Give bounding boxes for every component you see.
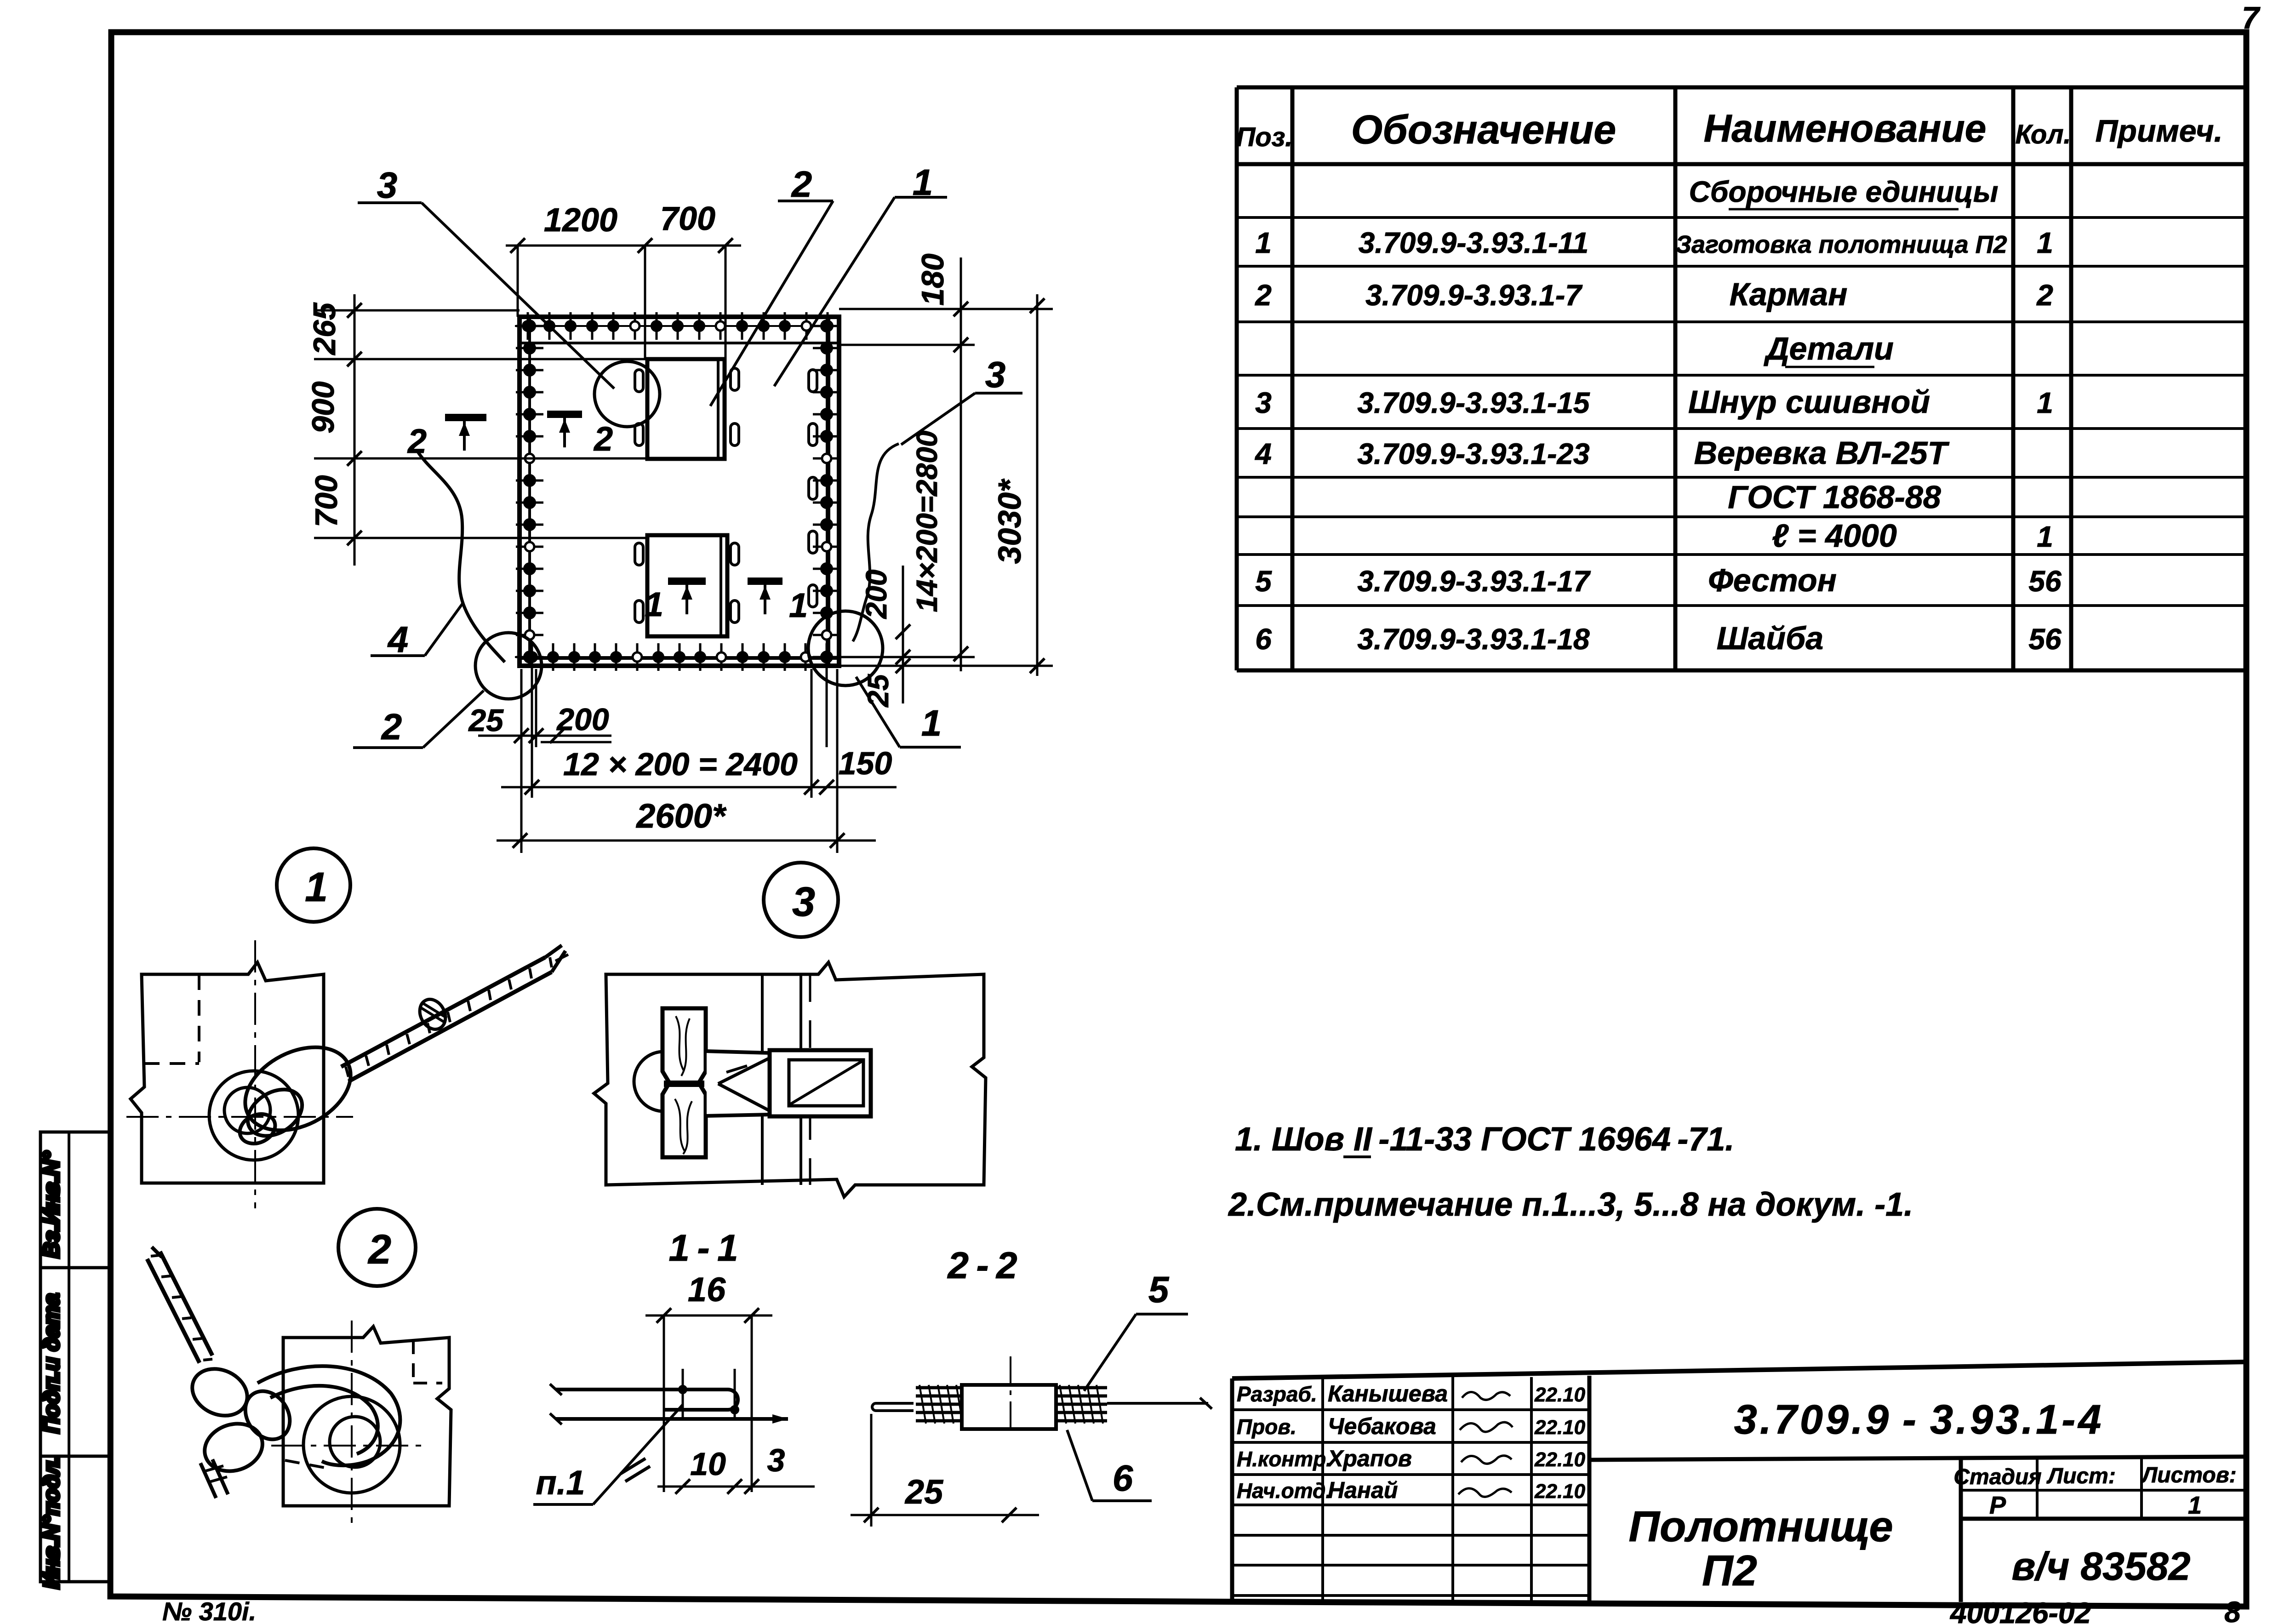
svg-text:2: 2 (1255, 279, 1272, 312)
svg-text:Шнур сшивной: Шнур сшивной (1688, 384, 1930, 420)
svg-text:14×200=2800: 14×200=2800 (910, 430, 943, 612)
detail 3 panel (594, 962, 986, 1197)
svg-text:Канышева: Канышева (1328, 1381, 1448, 1407)
svg-text:3030*: 3030* (992, 479, 1028, 564)
svg-text:1: 1 (921, 703, 942, 743)
detail 2 washer (303, 1396, 400, 1493)
svg-text:ГОСТ 1868-88: ГОСТ 1868-88 (1728, 479, 1941, 515)
svg-text:6: 6 (1113, 1458, 1133, 1498)
svg-text:16: 16 (688, 1270, 726, 1309)
svg-text:22.10: 22.10 (1534, 1416, 1586, 1439)
notes text (1228, 1121, 1913, 1223)
svg-text:22.10: 22.10 (1534, 1384, 1586, 1406)
dim 2600* (497, 797, 876, 848)
section 2-2 washer stack (872, 1356, 1212, 1435)
left stamp block (40, 1132, 110, 1589)
svg-text:Нанай: Нанай (1328, 1477, 1398, 1503)
svg-text:3.709.9-3.93.1-11: 3.709.9-3.93.1-11 (1359, 226, 1589, 259)
title block grid (1232, 1362, 2246, 1602)
label 1 top with leader (774, 162, 947, 386)
detail 1 panel (126, 940, 353, 1208)
svg-text:25: 25 (904, 1473, 944, 1511)
svg-text:Шайба: Шайба (1717, 620, 1824, 656)
svg-text:1: 1 (789, 586, 808, 624)
title block name (1628, 1502, 1893, 1595)
grommet column left (516, 317, 543, 666)
grommet row top (515, 312, 834, 340)
svg-text:Полотнище: Полотнище (1628, 1502, 1893, 1550)
svg-text:1: 1 (305, 864, 328, 910)
svg-text:Примеч.: Примеч. (2096, 114, 2223, 149)
svg-text:4: 4 (387, 619, 409, 660)
label 2 top with leader (710, 164, 833, 406)
svg-text:2: 2 (367, 1227, 391, 1273)
svg-text:1: 1 (1255, 226, 1272, 259)
detail 3 strap with buckle (704, 1050, 871, 1116)
svg-text:№ 310i.: № 310i. (162, 1597, 256, 1624)
svg-text:ℓ = 4000: ℓ = 4000 (1772, 518, 1897, 554)
svg-text:Н.контр.: Н.контр. (1237, 1447, 1332, 1471)
svg-text:5: 5 (1255, 565, 1272, 598)
svg-text:Заготовка полотнища П2: Заготовка полотнища П2 (1675, 231, 2007, 258)
svg-text:Стадия: Стадия (1953, 1465, 2041, 1489)
svg-text:3: 3 (767, 1442, 785, 1478)
svg-text:3.709.9-3.93.1-7: 3.709.9-3.93.1-7 (1365, 279, 1583, 312)
svg-text:3.709.9 - 3.93.1-4: 3.709.9 - 3.93.1-4 (1734, 1397, 2104, 1443)
section 1-1 dim 16 (645, 1270, 772, 1492)
detail 1 rope with knot (231, 945, 568, 1149)
svg-text:3.709.9-3.93.1-18: 3.709.9-3.93.1-18 (1357, 623, 1590, 656)
detail 1 washer (209, 1071, 298, 1160)
svg-text:Разраб.: Разраб. (1237, 1382, 1317, 1406)
grommet row bottom (515, 643, 834, 671)
label 1 bottom-right with leader (856, 677, 961, 747)
svg-text:Поз.: Поз. (1236, 122, 1293, 152)
parts table rows text (1254, 175, 2062, 656)
parts table grid (1237, 87, 2246, 670)
flag mark 1 (right) (748, 581, 808, 624)
dim 12x200=2400 and 150 (501, 745, 897, 795)
detail 3 callout (764, 863, 838, 937)
detail 2 callout (338, 1209, 416, 1286)
svg-text:3: 3 (377, 165, 398, 206)
detail 3 grommet (634, 1052, 694, 1111)
pocket lower (karman) (647, 535, 727, 636)
detail 1 callout (277, 848, 350, 922)
svg-text:Нач.отд.: Нач.отд. (1237, 1479, 1331, 1503)
extension lines below panel (521, 669, 837, 853)
svg-text:5: 5 (1148, 1269, 1170, 1310)
svg-text:1 - 1: 1 - 1 (668, 1227, 738, 1269)
svg-text:Веревка ВЛ-25Т: Веревка ВЛ-25Т (1694, 435, 1950, 471)
svg-text:1. Шов II -11-33 ГОСТ 16964: 1. Шов II -11-33 ГОСТ 16964 -71. (1235, 1121, 1734, 1158)
svg-text:56: 56 (2028, 623, 2062, 656)
svg-text:Сборочные единицы: Сборочные единицы (1689, 175, 1999, 208)
svg-text:2 - 2: 2 - 2 (947, 1245, 1017, 1287)
svg-text:Листов:: Листов: (2141, 1463, 2236, 1487)
dim 200 / 25 right near corner (860, 566, 910, 708)
leader circle bottom-left corner (475, 633, 542, 699)
svg-text:2: 2 (791, 164, 812, 205)
svg-text:1200: 1200 (544, 202, 617, 239)
section 1-1 label p.1 (533, 1405, 683, 1504)
grommet column right (813, 317, 840, 666)
svg-text:400126-02: 400126-02 (1949, 1596, 2091, 1624)
title block signature rows (1237, 1381, 1586, 1503)
svg-text:Пров.: Пров. (1237, 1415, 1296, 1439)
dim 1200 / 700 top (506, 200, 741, 359)
leader circle at upper pocket (594, 361, 660, 427)
flag mark 1 (left) (645, 581, 706, 623)
svg-text:1: 1 (2037, 386, 2053, 419)
dim chain right (180 / 14x200=2800 / 3030*) (839, 253, 1053, 676)
svg-text:3.709.9-3.93.1-17: 3.709.9-3.93.1-17 (1357, 565, 1591, 598)
svg-text:2600*: 2600* (635, 797, 727, 835)
svg-text:12 × 200 = 2400: 12 × 200 = 2400 (563, 746, 798, 782)
svg-text:Обозначение: Обозначение (1351, 107, 1616, 152)
detail 2 panel (271, 1321, 451, 1530)
svg-text:Подп.и дата: Подп.и дата (40, 1293, 64, 1434)
svg-text:700: 700 (309, 475, 344, 527)
panel outline (canvas sheet) (520, 317, 839, 666)
svg-text:265: 265 (307, 302, 342, 356)
svg-text:Детали: Детали (1764, 331, 1894, 366)
svg-text:Инв.N°подл.: Инв.N°подл. (40, 1455, 64, 1589)
svg-text:8: 8 (2224, 1595, 2241, 1624)
parts table header text (1236, 107, 2223, 152)
dim 25 / 200 bottom-left (468, 702, 611, 743)
dim chain left (265/900/700) (306, 294, 362, 566)
svg-text:Лист:: Лист: (2046, 1464, 2116, 1488)
section 2-2 dim 25 (851, 1414, 1039, 1527)
svg-text:10: 10 (690, 1446, 726, 1482)
section 1-1 fabric fold (550, 1369, 788, 1424)
svg-text:25: 25 (862, 674, 895, 708)
svg-text:п.1: п.1 (536, 1464, 585, 1502)
detail 2 rope with knot (147, 1247, 400, 1498)
svg-text:Кол.: Кол. (2015, 120, 2071, 149)
label 3 right with leader (901, 354, 1022, 445)
svg-text:1: 1 (2188, 1492, 2202, 1519)
section 1-1 dims 10 and 3 (657, 1442, 815, 1494)
svg-text:900: 900 (306, 381, 341, 434)
svg-text:в/ч 83582: в/ч 83582 (2011, 1544, 2190, 1589)
buttonhole slots (635, 368, 817, 623)
svg-text:3.709.9-3.93.1-15: 3.709.9-3.93.1-15 (1357, 386, 1590, 419)
svg-text:2: 2 (407, 422, 427, 460)
svg-text:Вз.Инв.N°: Вз.Инв.N° (40, 1151, 64, 1258)
svg-text:3.709.9-3.93.1-23: 3.709.9-3.93.1-23 (1357, 437, 1589, 470)
svg-text:6: 6 (1255, 623, 1272, 656)
detail 3 toggle (wood) (662, 1008, 706, 1157)
pocket upper (karman) (647, 359, 725, 459)
svg-text:П2: П2 (1702, 1546, 1757, 1595)
svg-text:700: 700 (660, 200, 715, 237)
svg-text:Р: Р (1989, 1492, 2006, 1519)
svg-text:2: 2 (381, 706, 402, 747)
svg-text:1: 1 (2037, 226, 2053, 259)
svg-text:200: 200 (860, 570, 893, 619)
label 4 left with leader (371, 602, 463, 660)
title block stage cells (1953, 1463, 2236, 1519)
rope wavy line left (pos.4) (418, 452, 505, 662)
seam lines (314, 310, 647, 538)
label 3 top-left with leader (358, 165, 614, 389)
svg-text:56: 56 (2028, 565, 2062, 598)
svg-text:180: 180 (915, 253, 950, 306)
svg-text:2: 2 (2036, 279, 2053, 312)
section 2-2 label 6 (1067, 1430, 1152, 1501)
flag mark 2 (left) (407, 417, 486, 460)
svg-text:25: 25 (468, 703, 504, 738)
svg-text:3: 3 (985, 354, 1006, 395)
svg-text:3: 3 (792, 879, 815, 925)
section 2-2 label 5 (1084, 1269, 1188, 1391)
svg-text:200: 200 (556, 702, 609, 737)
svg-text:22.10: 22.10 (1534, 1480, 1586, 1503)
svg-text:Храпов: Храпов (1326, 1446, 1412, 1471)
flag mark 2 (right) (547, 414, 613, 458)
svg-text:150: 150 (839, 745, 892, 781)
svg-text:2.См.примечание п.1...3, 5...: 2.См.примечание п.1...3, 5...8 на докум.… (1228, 1186, 1913, 1223)
svg-text:3: 3 (1255, 386, 1272, 419)
svg-text:22.10: 22.10 (1534, 1448, 1586, 1471)
svg-text:Фестон: Фестон (1708, 562, 1837, 598)
leader circle bottom-right corner (808, 611, 883, 686)
svg-text:Чебакова: Чебакова (1328, 1413, 1436, 1439)
svg-text:1: 1 (645, 585, 663, 623)
svg-text:Наименование: Наименование (1704, 107, 1987, 150)
label 2 bottom-left with leader (353, 691, 484, 748)
svg-text:7: 7 (2242, 0, 2261, 35)
cord wavy line right (853, 444, 899, 641)
svg-text:Карман: Карман (1730, 276, 1848, 312)
svg-text:1: 1 (2037, 520, 2053, 553)
svg-text:2: 2 (593, 420, 613, 458)
svg-text:4: 4 (1254, 437, 1272, 470)
